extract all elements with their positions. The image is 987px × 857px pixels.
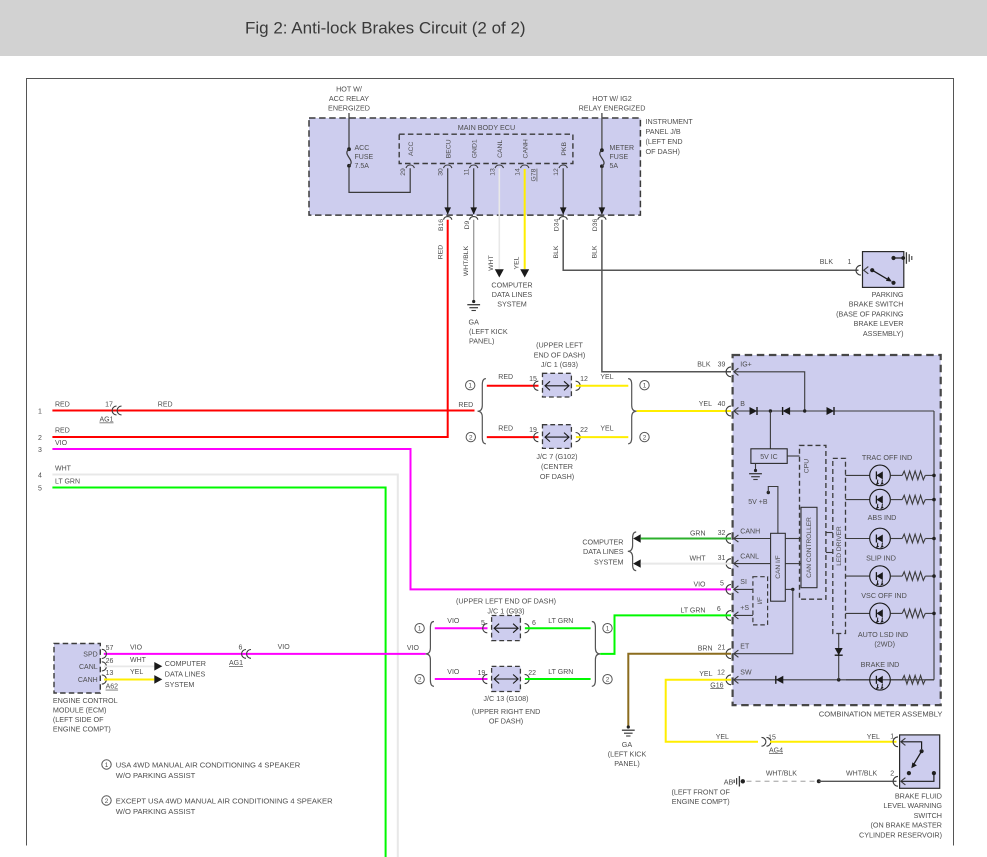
svg-text:CANL: CANL (497, 140, 504, 158)
svg-text:ACC: ACC (355, 145, 370, 152)
svg-text:5V IC: 5V IC (760, 454, 778, 461)
svg-text:40: 40 (718, 401, 726, 408)
wire PKB pin drop (560, 168, 567, 214)
junction connector J/C 1 (G93) lower (483, 616, 529, 641)
svg-text:LT GRN: LT GRN (548, 618, 573, 625)
svg-text:1: 1 (468, 383, 472, 390)
label WHT 31 (690, 555, 726, 563)
label J/C 7 footer (536, 452, 577, 481)
label VIO jc b1 (447, 618, 460, 625)
label VIO 5 (693, 581, 724, 589)
label VIO row3 (55, 440, 68, 447)
svg-text:5: 5 (38, 486, 42, 493)
ground GA (left kick panel) (467, 300, 480, 311)
brace right (lt grn join) (592, 622, 600, 687)
label VIO spd c (407, 645, 420, 652)
label BRAKE FLUID LEVEL WARNING SWITCH (859, 792, 942, 840)
label 19 jc (478, 670, 486, 677)
svg-text:1: 1 (848, 259, 852, 266)
wire LED driver to TRAC OFF IND (846, 474, 870, 476)
wire brake row (846, 679, 870, 681)
svg-text:13: 13 (489, 168, 496, 176)
svg-text:12: 12 (717, 670, 725, 677)
svg-text:BLK: BLK (697, 361, 711, 368)
label YEL jc7 (600, 426, 613, 433)
label LEFT FRONT OF ENGINE COMPT (671, 787, 730, 806)
svg-text:HOT W/: HOT W/ (336, 85, 362, 94)
wire GRN to CANH (641, 538, 731, 540)
resistor AUTO LSD IND (890, 609, 934, 618)
svg-text:7.5A: 7.5A (355, 163, 370, 170)
svg-text:HOT W/ IG2: HOT W/ IG2 (592, 94, 631, 103)
node bus AUTO LSD IND (932, 612, 936, 616)
label COMPUTER DATA LINES SYSTEM (ecm) (165, 659, 206, 689)
ECU pin number 11 (464, 168, 471, 175)
wire cpu-leddriver link a (826, 532, 833, 534)
LED SLIP IND (870, 528, 891, 549)
svg-text:RED: RED (55, 428, 70, 435)
svg-text:MAIN BODY ECU: MAIN BODY ECU (458, 123, 515, 132)
resistor VSC OFF IND (890, 572, 934, 581)
svg-text:AG1: AG1 (229, 660, 243, 667)
wire SI internal (734, 588, 753, 590)
ECU pin connector CANL (495, 165, 503, 168)
svg-text:VIO: VIO (55, 440, 68, 447)
label 26 (106, 658, 114, 665)
connector B16 (444, 217, 452, 220)
brake fluid switch pin 1 (893, 737, 905, 747)
label 15 (529, 376, 537, 383)
connector AG4 (762, 737, 771, 746)
fuse METER 5A (600, 148, 604, 168)
svg-text:SI: SI (740, 579, 747, 586)
svg-text:(ON BRAKE MASTER: (ON BRAKE MASTER (871, 821, 943, 830)
ECM pin SPD (83, 649, 106, 658)
wire CANL internal (734, 563, 801, 565)
ECM pin CANH (78, 675, 107, 684)
arrow CANH to data lines (520, 269, 529, 277)
label INSTRUMENT PANEL J/B (646, 117, 694, 156)
svg-text:14: 14 (515, 168, 522, 176)
wire BRN ET to ground (628, 654, 731, 726)
brake fluid switch pin 2 (893, 776, 905, 786)
label 1 bfs (890, 733, 894, 740)
ECU pin number 30 (438, 168, 445, 176)
ECU pin number 29 (400, 168, 407, 176)
arrow GRN data line (633, 534, 641, 542)
svg-text:17: 17 (105, 402, 113, 409)
wire hot-ig2 feed (601, 113, 603, 149)
arrow WHT data line (633, 559, 641, 567)
svg-text:VSC OFF IND: VSC OFF IND (861, 591, 907, 600)
svg-text:WHT/BLK: WHT/BLK (766, 770, 797, 777)
label MAIN BODY ECU (458, 123, 515, 132)
label LT GRN jc b2 (548, 669, 573, 676)
svg-text:CANL: CANL (79, 664, 98, 671)
svg-text:13: 13 (106, 670, 114, 677)
label SLIP IND (866, 554, 896, 563)
svg-text:OF DASH): OF DASH) (540, 472, 574, 481)
ECU pin number 13 (489, 168, 496, 176)
svg-text:G16: G16 (710, 682, 723, 689)
svg-text:2: 2 (105, 798, 109, 805)
svg-text:AG1: AG1 (99, 417, 113, 424)
svg-text:CAN CONTROLLER: CAN CONTROLLER (806, 517, 813, 578)
label AUTO LSD IND (2WD) (858, 630, 908, 649)
resistor TRAC OFF IND (890, 471, 934, 480)
label LT GRN jc b1 (548, 618, 573, 625)
svg-text:CANH: CANH (522, 139, 529, 158)
meter pin SW (726, 670, 752, 685)
wire LT GRN from J/C13 (525, 678, 591, 680)
LED AUTO LSD IND (870, 603, 891, 624)
label VIO spd b (278, 644, 291, 651)
label AB (724, 777, 734, 786)
wire IG+ internal (734, 372, 805, 411)
ground AB (body) (734, 776, 745, 786)
wire meter bus (933, 411, 935, 680)
svg-text:OF DASH): OF DASH) (646, 147, 680, 156)
resistor SLIP IND (890, 534, 934, 543)
svg-text:(UPPER LEFT: (UPPER LEFT (536, 340, 583, 349)
ECU pin label BECU (445, 139, 452, 158)
svg-text:DATA LINES: DATA LINES (165, 670, 206, 679)
svg-text:CANH: CANH (740, 528, 760, 535)
svg-text:(CENTER: (CENTER (541, 462, 573, 471)
label PARKING BRAKE SWITCH (836, 290, 904, 338)
label 6 jc right (532, 620, 536, 627)
svg-text:RED: RED (55, 402, 70, 409)
can i/f box (771, 533, 786, 601)
svg-text:W/O PARKING ASSIST: W/O PARKING ASSIST (116, 807, 196, 816)
svg-text:WHT: WHT (690, 556, 707, 563)
label ACC FUSE 7.5A (355, 145, 374, 170)
label GRN 32 (690, 530, 726, 538)
label LT GRN row5 (55, 479, 80, 486)
wire row1 RED (52, 410, 474, 412)
svg-text:31: 31 (718, 555, 726, 562)
svg-text:2: 2 (890, 770, 894, 777)
svg-text:22: 22 (580, 427, 588, 434)
svg-text:YEL: YEL (716, 734, 729, 741)
brake fluid switch contacts (902, 742, 937, 782)
label D36 (592, 219, 599, 232)
node 2 (38, 435, 42, 442)
svg-text:1: 1 (38, 409, 42, 416)
svg-text:SPD: SPD (83, 651, 97, 658)
wire ACC fuse to pin 29 (349, 167, 410, 192)
svg-text:B16: B16 (438, 219, 445, 231)
label RED vertical (437, 245, 444, 259)
svg-text:(UPPER RIGHT END: (UPPER RIGHT END (472, 707, 541, 716)
wire CANL drop (WHT) (498, 168, 500, 269)
brace left (red split) (478, 379, 486, 444)
svg-text:2: 2 (418, 677, 422, 684)
svg-text:AUTO LSD IND: AUTO LSD IND (858, 630, 908, 639)
combination meter assembly box (733, 355, 941, 705)
label ENGINE CONTROL MODULE (ECM) (53, 696, 118, 734)
connector D9 (470, 217, 478, 220)
brake fluid level warning switch box (900, 735, 940, 788)
svg-text:GA: GA (469, 318, 480, 327)
wire SW internal (734, 679, 934, 681)
svg-text:D9: D9 (464, 220, 471, 229)
label 12 (580, 376, 588, 383)
label VIO jc b2 (447, 669, 460, 676)
svg-text:SW: SW (740, 670, 752, 677)
svg-text:ACC: ACC (408, 142, 415, 156)
wire VIO to J/C1g93 (435, 627, 488, 629)
wire YEL from J/C1 (576, 385, 628, 387)
brace right (yel join) (628, 379, 636, 444)
i/f box (753, 577, 768, 625)
wire RED to J/C7 (487, 436, 539, 438)
resistor ABS IND (890, 495, 934, 504)
svg-text:WHT/BLK: WHT/BLK (463, 245, 470, 276)
svg-text:ASSEMBLY): ASSEMBLY) (863, 329, 904, 338)
svg-text:12: 12 (553, 168, 560, 176)
svg-text:6: 6 (717, 606, 721, 613)
svg-text:LED DRIVER: LED DRIVER (836, 526, 843, 566)
ECU pin number 12 (553, 168, 560, 176)
label 5 jc (481, 620, 485, 627)
wire D34 BLK (563, 220, 858, 271)
label YEL 12 G16 (699, 670, 725, 690)
label WHT ecm (130, 657, 147, 664)
svg-text:CANH: CANH (78, 677, 98, 684)
svg-text:RED: RED (158, 402, 173, 409)
label LT GRN 6 (680, 606, 720, 614)
resistor BRAKE IND (890, 676, 934, 685)
node IG+ join (803, 409, 806, 412)
svg-text:ENERGIZED: ENERGIZED (328, 104, 370, 113)
label B16 (438, 219, 445, 231)
ECM pin CANL (79, 662, 106, 671)
svg-text:WHT/BLK: WHT/BLK (846, 770, 877, 777)
svg-text:YEL: YEL (600, 426, 613, 433)
label upper-left-dash J/C 1 header (534, 340, 586, 369)
svg-text:IG+: IG+ (740, 362, 751, 369)
svg-text:PANEL J/B: PANEL J/B (646, 127, 681, 136)
svg-text:WHT: WHT (55, 466, 72, 473)
svg-text:6: 6 (239, 644, 243, 651)
label RED row1 a (55, 402, 70, 409)
meter pin CANL (726, 553, 759, 568)
svg-text:5V +B: 5V +B (748, 499, 768, 506)
svg-text:WHT: WHT (488, 255, 495, 270)
arrow ECM CANH data (154, 675, 162, 684)
node SW-LED join (837, 678, 841, 682)
label D9 (464, 220, 471, 229)
node WHT/BLK join (817, 779, 821, 783)
svg-text:WHT: WHT (130, 657, 147, 664)
meter pin +S (726, 605, 749, 620)
LED ABS IND (870, 489, 891, 510)
svg-text:LT GRN: LT GRN (55, 479, 80, 486)
svg-text:COMPUTER: COMPUTER (165, 659, 206, 668)
svg-text:BRAKE LEVER: BRAKE LEVER (854, 319, 904, 328)
wire ECM CANH YEL (104, 679, 154, 681)
label VIO ecm (130, 644, 143, 651)
svg-text:AB: AB (724, 777, 734, 786)
connector AG1 SPD (242, 650, 251, 659)
label YEL 40 (699, 401, 726, 408)
svg-text:(LEFT KICK: (LEFT KICK (469, 327, 508, 336)
wire VIO to J/C13 (435, 678, 488, 680)
svg-text:RED: RED (498, 426, 513, 433)
svg-text:SWITCH: SWITCH (914, 811, 942, 820)
label YEL bottom b (867, 734, 880, 741)
meter pin IG+ (726, 362, 752, 377)
wire 5V IC to CPU (787, 455, 799, 457)
svg-text:D36: D36 (592, 219, 599, 232)
label BLK parking (820, 259, 834, 266)
svg-text:CPU: CPU (803, 459, 810, 473)
meter pin ET (726, 644, 750, 659)
svg-text:2: 2 (643, 434, 647, 441)
svg-text:4: 4 (38, 473, 42, 480)
label TRAC OFF IND (862, 453, 912, 462)
svg-text:RED: RED (498, 374, 513, 381)
svg-text:METER: METER (610, 145, 635, 152)
wire LT GRN from J/C1g93 (525, 627, 591, 629)
brace left (vio split) (426, 622, 434, 687)
ECU pin label GND1 (471, 139, 478, 158)
cpu box (800, 445, 826, 599)
option 2 circled jc2 (right) (603, 675, 612, 684)
svg-text:EXCEPT USA 4WD MANUAL AIR COND: EXCEPT USA 4WD MANUAL AIR CONDITIONING 4… (116, 796, 333, 805)
svg-text:FUSE: FUSE (610, 154, 629, 161)
ground internal 5V IC (749, 469, 762, 480)
svg-text:LT GRN: LT GRN (680, 607, 705, 614)
label WHT vertical (488, 255, 495, 270)
diode D2 (B row) (783, 407, 791, 415)
svg-text:GRN: GRN (690, 531, 706, 538)
svg-text:5A: 5A (610, 163, 619, 170)
svg-text:J/C 13 (G108): J/C 13 (G108) (483, 694, 528, 703)
wire row5 LT GRN (52, 488, 385, 857)
label G78 (531, 168, 538, 181)
label COMPUTER DATA LINES SYSTEM (top) (491, 281, 532, 309)
svg-text:11: 11 (464, 168, 471, 175)
svg-text:21: 21 (718, 644, 726, 651)
wire BECU pin drop (444, 168, 451, 214)
label ABS IND (868, 513, 897, 522)
svg-text:CAN I/F: CAN I/F (775, 555, 782, 578)
ECU pin label CANH (522, 139, 529, 158)
label YEL jc1 (600, 374, 613, 381)
svg-text:VIO: VIO (130, 644, 143, 651)
engine control module box (54, 644, 100, 694)
svg-text:YEL: YEL (513, 256, 520, 269)
svg-text:RED: RED (437, 245, 444, 259)
wire WHT/BLK to switch pin 2 (819, 780, 897, 782)
label WHT row4 (55, 466, 72, 473)
svg-text:5: 5 (720, 581, 724, 588)
svg-text:INSTRUMENT: INSTRUMENT (646, 117, 694, 126)
svg-text:1: 1 (606, 626, 610, 633)
svg-text:30: 30 (438, 168, 445, 176)
svg-text:YEL: YEL (699, 671, 712, 678)
svg-text:MODULE (ECM): MODULE (ECM) (53, 706, 107, 715)
svg-text:PANEL): PANEL) (614, 759, 639, 768)
svg-text:GA: GA (622, 740, 633, 749)
svg-text:+S: +S (740, 605, 749, 612)
svg-text:PANEL): PANEL) (469, 337, 494, 346)
instrument panel J/B box (309, 118, 640, 215)
label A62 (106, 684, 119, 691)
svg-text:Fig 2: Anti-lock Brakes Circui: Fig 2: Anti-lock Brakes Circuit (2 of 2) (245, 19, 526, 38)
wire YEL SW to switch (666, 680, 758, 742)
label 17 (105, 402, 113, 409)
label BLK vertical 2 (591, 245, 598, 258)
svg-text:6: 6 (532, 620, 536, 627)
svg-text:COMPUTER: COMPUTER (582, 537, 623, 546)
svg-text:YEL: YEL (867, 734, 880, 741)
wire WHT to CANL (641, 563, 731, 565)
ECU pin connector BECU (444, 165, 452, 168)
svg-text:PARKING: PARKING (872, 290, 904, 299)
wire 5V IC feed (769, 411, 771, 449)
svg-text:39: 39 (718, 361, 726, 368)
ground GA (left kick panel) 2 (622, 725, 635, 736)
label BRN 21 (698, 644, 726, 652)
svg-text:D34: D34 (553, 219, 560, 232)
label BRAKE IND (861, 660, 900, 669)
svg-text:BECU: BECU (445, 139, 452, 158)
ECU pin connector GND1 (470, 165, 478, 168)
meter pin B (726, 401, 745, 416)
svg-text:32: 32 (718, 530, 726, 537)
wire 5V IC ground stem (755, 463, 757, 469)
option 1 circled jc2 (left) (415, 624, 424, 633)
svg-text:LEVEL WARNING: LEVEL WARNING (883, 801, 942, 810)
wire row4 WHT (52, 475, 397, 857)
label WHT/BLK b (846, 770, 877, 777)
svg-text:ENGINE CONTROL: ENGINE CONTROL (53, 696, 118, 705)
svg-text:J/C 7 (G102): J/C 7 (G102) (536, 452, 577, 461)
label WHT/BLK vertical (463, 245, 470, 276)
label AG1 row1 (99, 417, 113, 424)
svg-text:COMPUTER: COMPUTER (491, 281, 532, 290)
svg-text:PKB: PKB (561, 142, 568, 156)
title bar (0, 0, 987, 56)
wire LED driver to VSC OFF IND (846, 575, 870, 577)
svg-text:19: 19 (478, 670, 486, 677)
meter pin CANH (726, 528, 760, 543)
meter pin SI (726, 579, 747, 594)
svg-text:RED: RED (458, 402, 473, 409)
svg-text:YEL: YEL (699, 401, 712, 408)
svg-text:AG4: AG4 (769, 747, 783, 754)
node 5V +B (767, 487, 778, 534)
svg-text:12: 12 (580, 376, 588, 383)
svg-text:SYSTEM: SYSTEM (165, 680, 195, 689)
svg-text:22: 22 (528, 670, 536, 677)
wire D36 BLK (602, 220, 731, 372)
led driver box (833, 458, 846, 633)
svg-text:26: 26 (106, 658, 114, 665)
label RED row2 (55, 428, 70, 435)
svg-text:VIO: VIO (407, 645, 420, 652)
parking brake switch box (863, 252, 904, 288)
label 22 jc right (528, 670, 536, 677)
footnote 1 (102, 760, 301, 780)
svg-text:(LEFT FRONT OF: (LEFT FRONT OF (671, 787, 730, 796)
label VSC OFF IND (861, 591, 907, 600)
svg-text:VIO: VIO (447, 669, 460, 676)
svg-text:YEL: YEL (130, 669, 143, 676)
